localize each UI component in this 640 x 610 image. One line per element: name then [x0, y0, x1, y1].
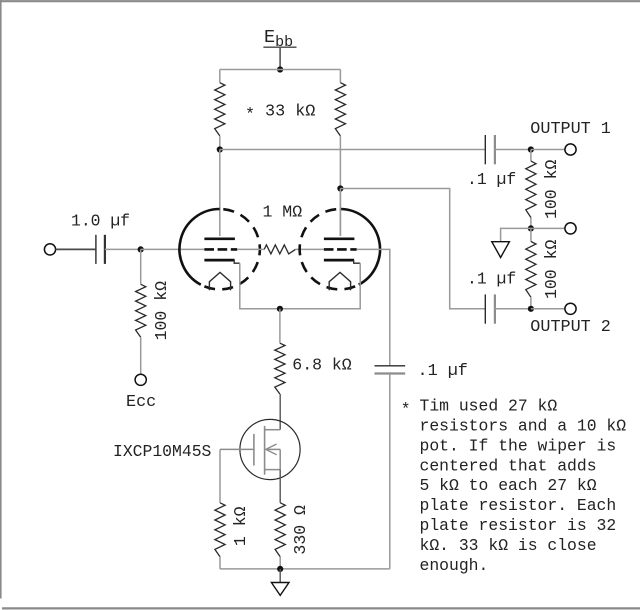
capacitor .1uf grid decoupling — [375, 366, 406, 374]
tube V2 plate bar — [324, 237, 355, 240]
note asterisk footnote text — [401, 397, 626, 575]
transistor Q1 body arrow — [266, 444, 281, 455]
wire 33k-left top stub — [219, 70, 221, 83]
tube V2 grid dashes — [324, 248, 357, 251]
border frame bottom edge — [2, 607, 640, 609]
junction input grid node — [138, 246, 144, 252]
tube V1 heater — [209, 272, 230, 290]
svg-text:*: * — [245, 106, 255, 125]
wire C2 to output1 node — [495, 149, 531, 151]
resistor 330 source — [275, 503, 285, 557]
value label 100 kOhm grid — [152, 281, 171, 341]
svg-text:.1 µf: .1 µf — [467, 270, 516, 289]
svg-text:.1 µf: .1 µf — [418, 362, 468, 381]
wire mid node to ground — [501, 228, 531, 241]
value label 1 kOhm — [231, 506, 250, 546]
capacitor .1uf output1 — [485, 135, 495, 164]
junction right plate node — [337, 185, 343, 191]
resistor 33k left — [215, 83, 225, 136]
wire left plate lead — [219, 150, 221, 237]
node label OUTPUT 1 — [530, 120, 611, 139]
wire 330 to bottom rail — [279, 557, 281, 569]
transistor Q1 envelope — [240, 419, 300, 479]
tube V1 left triode envelope solid arc — [179, 209, 219, 285]
power label Ecc — [126, 393, 156, 412]
svg-text:1 MΩ: 1 MΩ — [263, 203, 303, 222]
wire right grid out — [357, 249, 390, 365]
tube V1 plate bar — [204, 237, 235, 240]
wire Ebb stub — [279, 48, 281, 70]
tube V2 plate lead — [339, 189, 341, 237]
terminal OUTPUT 2 — [565, 303, 576, 314]
transistor Q1 gate bar — [253, 434, 255, 466]
tube V2 heater — [329, 272, 350, 290]
wire ground stub — [279, 569, 281, 583]
svg-text:1 kΩ: 1 kΩ — [231, 506, 250, 546]
terminal input — [44, 244, 55, 255]
value label .1 uf decoupling — [418, 362, 468, 381]
wire 100k-upper bottom stub — [530, 218, 532, 229]
resistor 6.8k cathode — [275, 343, 285, 394]
tube V2 right triode envelope dashed arc — [300, 209, 359, 289]
wire output2 node to terminal — [531, 308, 565, 310]
value label .1 uf output2 — [467, 270, 516, 289]
svg-text:plate resistor. Each: plate resistor. Each — [420, 496, 617, 515]
svg-text:Tim used 27 kΩ: Tim used 27 kΩ — [420, 397, 558, 416]
svg-text:IXCP10M45S: IXCP10M45S — [113, 442, 212, 461]
tube V2 right triode envelope solid arc — [340, 209, 380, 285]
wire 6.8k to drain — [279, 394, 281, 430]
wire 33k-left bottom stub — [219, 136, 221, 150]
svg-text:330 Ω: 330 Ω — [291, 505, 310, 555]
wire right cathode drop — [280, 263, 360, 309]
wire 100k-lower bottom stub — [530, 297, 532, 309]
svg-text:plate resistor is 32: plate resistor is 32 — [420, 516, 617, 535]
resistor 100k grid — [136, 284, 146, 337]
svg-text:pot. If the wiper is: pot. If the wiper is — [420, 436, 617, 455]
tube V1 cathode bar — [204, 259, 234, 262]
wire left plate bus to C2 — [220, 149, 485, 151]
resistor 1k gate — [215, 503, 225, 557]
node label OUTPUT 2 — [530, 318, 611, 337]
wire 100k-lower top stub — [530, 228, 532, 241]
terminal OUTPUT 1 — [565, 144, 576, 155]
tube V2 cathode bar — [324, 259, 354, 262]
resistor 100k lower output — [526, 242, 536, 298]
svg-text:100 kΩ: 100 kΩ — [152, 281, 171, 341]
junction Ebb bus — [277, 66, 283, 72]
value label * 33 kOhm — [245, 103, 315, 126]
value label 6.8 kOhm — [292, 355, 352, 374]
transistor Q1 drain bend — [265, 429, 281, 431]
svg-text:kΩ. 33 kΩ is close: kΩ. 33 kΩ is close — [420, 536, 597, 555]
junction output mid node — [528, 225, 534, 231]
resistor 1M grid-grid — [264, 245, 295, 254]
wire grid node to left grid — [141, 248, 205, 250]
value label 1 MOhm — [263, 203, 303, 222]
value label 1.0 uf — [71, 212, 130, 231]
svg-text:5 kΩ to each 27 kΩ: 5 kΩ to each 27 kΩ — [420, 476, 597, 495]
wire 33k-right top stub — [339, 70, 341, 83]
value label 330 Ohm — [291, 505, 310, 555]
value label 100 kOhm upper output — [542, 160, 561, 220]
part label IXCP10M45S — [113, 442, 212, 461]
wire 100k-grid bottom stub — [140, 337, 142, 374]
ground main — [271, 583, 289, 596]
junction output1 node — [528, 146, 534, 152]
wire gate to 1k — [219, 449, 221, 502]
wire 33k-right to right plate — [339, 136, 341, 236]
resistor 33k right — [335, 83, 345, 136]
ground output divider — [492, 242, 510, 258]
wire mid node to terminal — [531, 227, 565, 229]
svg-text:centered that adds: centered that adds — [420, 456, 597, 475]
wire output1 node to terminal — [531, 149, 565, 151]
tube V1 cathode step — [234, 260, 240, 263]
svg-text:resistors and a 10 kΩ: resistors and a 10 kΩ — [420, 417, 627, 436]
value label 100 kOhm lower output — [542, 240, 561, 300]
svg-text:OUTPUT 1: OUTPUT 1 — [530, 120, 611, 139]
tube V1 grid dashes — [204, 248, 237, 251]
wire source to 330 — [279, 470, 281, 503]
value label .1 uf output1 — [467, 170, 516, 189]
capacitor .1uf output2 — [485, 294, 495, 323]
svg-text:Ecc: Ecc — [126, 393, 156, 412]
wire top supply bus — [220, 69, 341, 71]
wire input to C1 — [56, 248, 96, 250]
wire C1 to grid node — [105, 248, 141, 250]
wire left cathode drop — [240, 263, 280, 309]
svg-text:OUTPUT 2: OUTPUT 2 — [530, 318, 611, 337]
power label Ebb — [263, 27, 296, 51]
wire bottom rail — [220, 568, 390, 570]
svg-text:1.0 µf: 1.0 µf — [71, 212, 130, 231]
wire right plate to drop — [340, 189, 485, 309]
wire 100k-upper top stub — [530, 150, 532, 162]
junction cathode node — [277, 306, 283, 312]
tube V1 left triode envelope dashed arc — [201, 209, 260, 289]
junction bottom rail ground node — [277, 566, 283, 572]
svg-text:6.8 kΩ: 6.8 kΩ — [292, 355, 352, 374]
terminal Ecc — [135, 374, 146, 385]
svg-text:33 kΩ: 33 kΩ — [265, 103, 315, 122]
junction left plate node — [217, 146, 223, 152]
wire C3 to output2 node — [495, 308, 531, 310]
border frame top edge — [0, 0, 640, 2]
transistor Q1 source bend — [265, 469, 281, 471]
svg-text:100 kΩ: 100 kΩ — [542, 160, 561, 220]
wire cathode to 6.8k — [279, 309, 281, 343]
svg-text:100 kΩ: 100 kΩ — [542, 240, 561, 300]
wire 100k-grid top stub — [140, 249, 142, 284]
terminal output mid — [565, 223, 576, 234]
wire C4 to bottom rail — [389, 374, 391, 569]
border frame left edge — [0, 0, 2, 599]
wire R 1M to right grid — [295, 248, 324, 250]
resistor 100k upper output — [526, 161, 536, 217]
capacitor 1.0uf input — [96, 235, 105, 264]
svg-text:enough.: enough. — [420, 556, 489, 575]
transistor Q1 gate lead — [220, 448, 254, 450]
svg-text:.1 µf: .1 µf — [467, 170, 516, 189]
transistor Q1 body-source tie — [279, 449, 281, 469]
svg-text:*: * — [401, 400, 411, 419]
junction output2 node — [528, 306, 534, 312]
tube V2 cathode step — [354, 260, 361, 263]
wire left grid to R 1M — [237, 248, 264, 250]
transistor Q1 channel bar — [264, 426, 266, 475]
wire 1k to bottom rail — [219, 557, 221, 569]
